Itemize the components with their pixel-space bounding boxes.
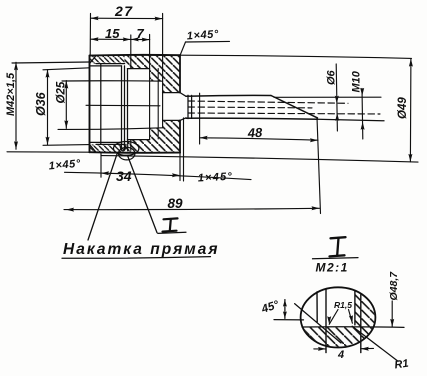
svg-text:Ø36: Ø36 [34, 91, 48, 116]
svg-text:1×45°: 1×45° [48, 158, 81, 173]
detail callout label I with underline [164, 217, 178, 220]
hidden hole dia6 dashed lines [188, 101, 348, 103]
svg-text:M10: M10 [351, 70, 363, 92]
extension line dia49 bottom [101, 156, 418, 163]
axis line [86, 104, 160, 107]
svg-text:R1,5: R1,5 [334, 300, 352, 310]
detail I circle marker, knurl groove, leaders [114, 142, 139, 156]
detail view I M2:1 (groove section) [301, 287, 376, 347]
extension line dia49 top [180, 55, 412, 58]
svg-text:7: 7 [137, 26, 145, 41]
svg-text:34: 34 [116, 168, 132, 184]
svg-text:Ø49: Ø49 [397, 97, 409, 119]
svg-text:4: 4 [337, 349, 344, 361]
head right face [179, 55, 181, 92]
dimensions dia6, M10, dia49 [336, 64, 337, 131]
thread M42 root line bottom [96, 143, 125, 145]
groove wall lines [121, 66, 123, 150]
svg-text:R1: R1 [394, 358, 410, 372]
svg-text:48: 48 [246, 125, 263, 141]
svg-text:45°: 45° [259, 299, 281, 316]
dimensions M42x1.5, dia36, dia25 [15, 62, 17, 149]
thread M42 root line top [96, 63, 125, 65]
shaft M10 outline [186, 94, 271, 97]
svg-text:Ø48,7: Ø48,7 [388, 271, 400, 301]
svg-text:1×45°: 1×45° [198, 171, 234, 185]
chamfer top-left 1x45 [90, 56, 97, 64]
svg-text:1×45°: 1×45° [186, 28, 219, 42]
head left face [89, 56, 91, 153]
bore dia36 top line [90, 65, 122, 67]
svg-text:Накатка прямая: Накатка прямая [63, 241, 220, 258]
part head outer bottom edge [90, 151, 181, 154]
svg-text:M2:1: M2:1 [316, 261, 349, 275]
svg-text:M42×1,5: M42×1,5 [5, 72, 17, 116]
bore dia36 bottom line [90, 141, 122, 143]
svg-text:Ø25: Ø25 [56, 81, 68, 103]
dimension 27 and 15/7 [89, 14, 91, 56]
extension line M42 bottom [7, 151, 90, 153]
hatch areas main [90, 55, 180, 152]
svg-text:Ø6: Ø6 [326, 69, 338, 85]
chamfer bottom-left 1x45 [90, 144, 97, 152]
bore end face / ext 27 [162, 14, 164, 128]
svg-text:15: 15 [105, 26, 120, 41]
label 1x45 top leader [186, 40, 230, 43]
detail view title I [331, 237, 346, 238]
part head outer top edge [90, 54, 181, 57]
svg-text:27: 27 [114, 3, 134, 19]
dimensions 34, 48, 89 [65, 172, 252, 179]
svg-text:89: 89 [168, 196, 184, 211]
